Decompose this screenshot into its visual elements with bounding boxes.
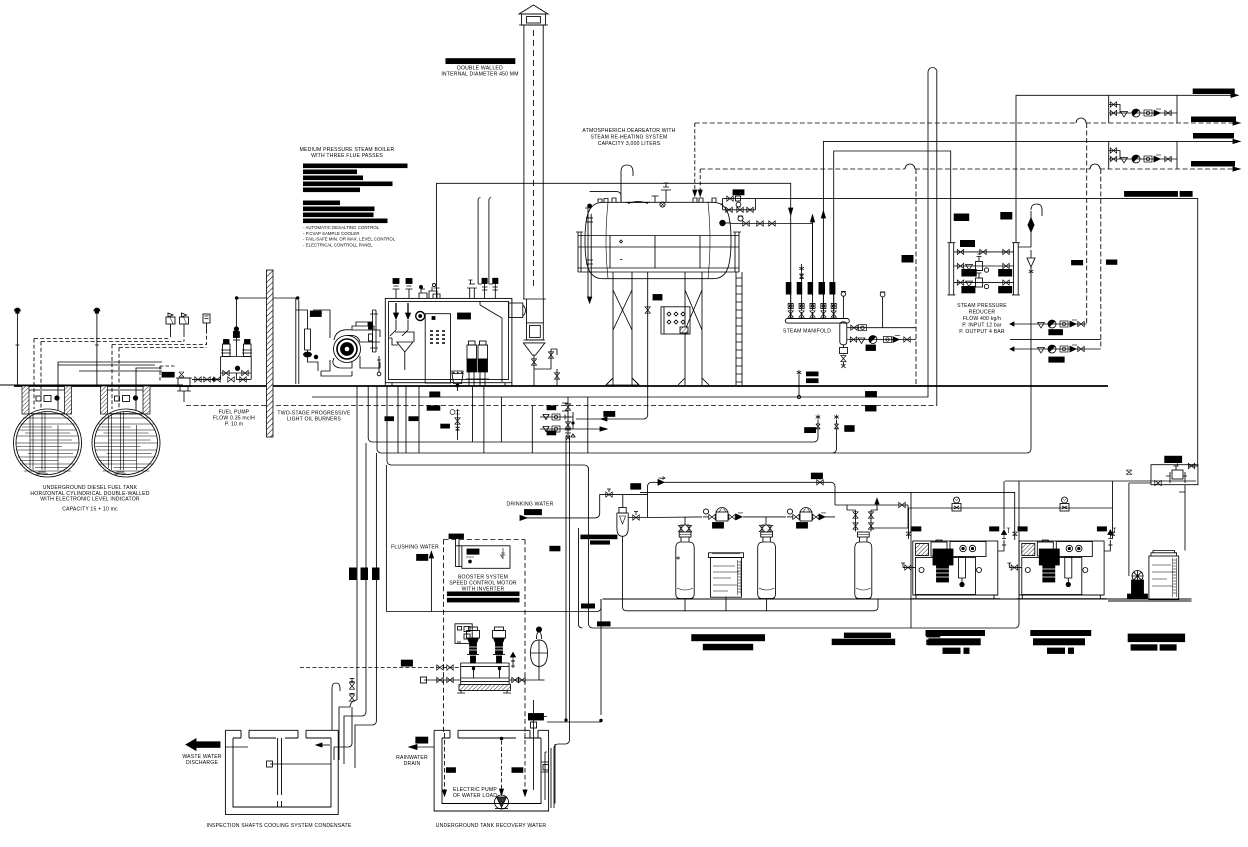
- softener2 head risers: [759, 517, 772, 532]
- boiler info text: [300, 147, 395, 159]
- label bars boiler info block1: [303, 164, 408, 193]
- fuel tank T2 shell: [92, 409, 160, 477]
- wire softener3 cross: [847, 505, 908, 528]
- level transmitter LT2: [180, 313, 189, 333]
- label bar drinking corner: [525, 510, 542, 515]
- node fuel supply: [235, 297, 238, 300]
- skid2 left valve: [1007, 563, 1022, 570]
- label bars skid1: [911, 526, 999, 531]
- valve side riser 2: [554, 373, 559, 379]
- arrow nozzle A: [693, 190, 697, 196]
- svg-text:DRAIN: DRAIN: [404, 761, 421, 767]
- deaerator ladder: [736, 272, 742, 385]
- recovery tank side opening: [541, 762, 549, 772]
- label bar softener2: [797, 523, 808, 529]
- feed pump FP2: [477, 341, 489, 386]
- tank T1 access shaft: [20, 385, 74, 414]
- condensate drain station: [562, 397, 571, 440]
- safety valve reducer: [1018, 204, 1042, 274]
- wire deaerator drain riser x647: [576, 272, 648, 419]
- rainwater arrow: [409, 737, 434, 749]
- label bars reducer: [954, 212, 1013, 293]
- check branch2: [884, 337, 892, 343]
- deaerator D1 vessel: [585, 202, 731, 279]
- wire dashed nozzle riser B: [699, 169, 701, 196]
- wire burner fuel loop: [296, 310, 330, 371]
- gauge burner1: [314, 355, 318, 359]
- softener2 control cluster: [787, 508, 826, 522]
- wire skid feed y492: [640, 492, 1015, 540]
- node fuel supply right: [296, 297, 299, 300]
- softener1 control cluster: [703, 508, 743, 522]
- arrow drinking water entry: [520, 515, 527, 520]
- booster control panel: [455, 624, 472, 644]
- tank T2 access shaft: [99, 385, 153, 414]
- main steam valve nozzle: [433, 288, 440, 298]
- deaerator leg left: [606, 272, 639, 386]
- wire cabinet riser: [1179, 485, 1185, 551]
- waste water text: [182, 754, 221, 766]
- hops y169: [905, 164, 1100, 169]
- arrow y141 end: [1233, 139, 1240, 143]
- wire dashed suction from waste y668: [300, 667, 430, 669]
- vent cap T1: [14, 308, 20, 313]
- booster pump BP2: [493, 627, 506, 663]
- valve deaerator outlet 3: [769, 221, 775, 226]
- wire condensate return y397: [312, 72, 928, 397]
- deaerator recirc loop: [720, 196, 755, 212]
- svg-text:FLOW 400 kg/h: FLOW 400 kg/h: [963, 316, 1001, 322]
- arrow nozzle B: [698, 190, 702, 196]
- waste discharge arrow: [186, 739, 220, 751]
- label bars boiler info block2: [303, 201, 388, 224]
- waste water tank: [225, 730, 338, 814]
- skid2 right relief: [1104, 530, 1113, 551]
- valve deaerator outlet 1: [743, 221, 749, 226]
- boiler bullet list text: [303, 225, 396, 247]
- hop y123: [1076, 118, 1086, 123]
- deaerator feed downpipe: [585, 204, 593, 303]
- label bars water station: [549, 535, 617, 552]
- fuel riser valve cluster: [233, 327, 240, 340]
- svg-text:- P.CVAP SAMPLE COOLER: - P.CVAP SAMPLE COOLER: [303, 231, 360, 236]
- boiler gauge big: [416, 312, 425, 321]
- wire boiler drains to y453: [398, 386, 588, 453]
- softener1 head risers: [678, 517, 691, 532]
- svg-text:DRINKING WATER: DRINKING WATER: [507, 502, 554, 508]
- reducer row2: [954, 254, 1014, 272]
- valve branch2 a: [850, 337, 856, 342]
- steam trap manifold: [840, 345, 848, 368]
- wire dashed box fuel trap: [160, 366, 176, 382]
- svg-text:- AUTOMATIC DESALTING CONTROL: - AUTOMATIC DESALTING CONTROL: [303, 225, 380, 230]
- check valve drop x1128: [1126, 470, 1132, 576]
- manifold separator pot: [840, 292, 847, 345]
- deaerator platform rails: [576, 232, 741, 272]
- svg-text:STEAM RE-HEATING SYSTEM: STEAM RE-HEATING SYSTEM: [591, 135, 668, 141]
- recovery tank: [434, 730, 548, 811]
- wire skid header y508: [909, 481, 1113, 539]
- star valve riser x838: [833, 414, 839, 453]
- star valve riser x818: [816, 414, 821, 437]
- wire star stub: [798, 375, 800, 397]
- dosing pump right: [1128, 571, 1148, 600]
- boiler internal valves left: [390, 303, 411, 336]
- drain valve pair x457: [450, 409, 460, 440]
- softener3 head risers: [847, 499, 879, 532]
- label bars right meter: [1128, 634, 1185, 651]
- wire condensate header y442: [357, 386, 818, 682]
- wire recovery feed drop: [534, 599, 602, 790]
- pressure reducer left header: [948, 243, 956, 295]
- booster outlet: [509, 653, 539, 683]
- small box under bar: [531, 722, 537, 728]
- pump condensate P3: [869, 336, 877, 344]
- wire filter drain x578: [579, 528, 583, 628]
- wire filter feed drop: [622, 495, 624, 508]
- heat exchanger line B y349: [1010, 345, 1101, 353]
- label bar row B: [1049, 357, 1064, 362]
- svg-text:P. 10 m: P. 10 m: [225, 422, 243, 428]
- reducer row1: [954, 249, 1014, 254]
- boiler B1 body: [385, 298, 512, 386]
- electric pump text: [453, 787, 497, 799]
- M valve skid2: [1060, 497, 1069, 511]
- vertical label bars triple: [349, 568, 380, 581]
- svg-text:P. INPUT 12 bar: P. INPUT 12 bar: [962, 323, 1002, 329]
- flushing water arrow: [429, 552, 433, 612]
- wire drinking water y518: [527, 495, 648, 518]
- label bars drain area: [581, 604, 611, 627]
- tanks caption text: [30, 485, 149, 513]
- boiler control panel: [425, 314, 450, 383]
- label bar mini reducer: [1165, 456, 1182, 462]
- skid1 right relief: [998, 481, 1007, 551]
- skid1 left valve: [901, 563, 916, 570]
- valve softener3 feed: [899, 502, 905, 507]
- trap station B y429: [540, 417, 607, 437]
- svg-text:P. OUTPUT 4 BAR: P. OUTPUT 4 BAR: [959, 329, 1005, 335]
- svg-text:STEAM PRESSURE: STEAM PRESSURE: [957, 303, 1007, 309]
- reducer row3: [954, 271, 1014, 289]
- mini reducer box right: [1129, 463, 1198, 485]
- electric pump recovery: [495, 737, 509, 809]
- safety vent risers: [478, 198, 491, 285]
- deaerator leg right: [678, 272, 709, 385]
- fuel filter F1: [304, 326, 312, 357]
- label bar flushing: [417, 554, 428, 560]
- level switch LS: [203, 314, 210, 333]
- svg-text:ATMOSPHERICH DEAREATOR WITH: ATMOSPHERICH DEAREATOR WITH: [582, 128, 675, 134]
- valve branch2 b: [904, 337, 910, 342]
- svg-text:CAPACITY 15 + 10 mc: CAPACITY 15 + 10 mc: [62, 507, 118, 513]
- wire burner supply drop: [296, 298, 299, 384]
- label bar burner line: [310, 311, 321, 317]
- wire side riser 2: [551, 349, 557, 386]
- wire separator branch1: [847, 327, 916, 329]
- cone branch2: [893, 336, 900, 343]
- svg-text:INTERNAL DIAMETER 450 MM: INTERNAL DIAMETER 450 MM: [441, 72, 518, 78]
- wire dashed return y405: [186, 405, 937, 407]
- wire bypass y482: [648, 482, 836, 517]
- wire floor2 bottles y599: [603, 598, 1192, 600]
- valve drinking 2: [633, 512, 639, 521]
- booster discharge header: [461, 678, 509, 681]
- top module 1 loop: [1109, 95, 1177, 123]
- bottle softener3: [855, 532, 872, 599]
- arrows dashed box feet: [443, 790, 528, 796]
- burners text: [277, 411, 351, 423]
- wire vessel drop to recovery: [539, 679, 545, 681]
- wire boiler steam to manifold y183: [437, 183, 791, 318]
- bottle softener2: [758, 532, 776, 599]
- fuel pump text: [213, 410, 255, 428]
- wire filter outlet: [628, 517, 647, 519]
- economizer box: [527, 323, 544, 340]
- wire burner controls: [321, 360, 352, 376]
- fuel pump P1: [221, 340, 231, 357]
- svg-text:- FAIL-SAFE MIN. OR MAX. LEVEL: - FAIL-SAFE MIN. OR MAX. LEVEL CONTROL: [303, 237, 396, 242]
- cabinet softener right: [1149, 551, 1179, 600]
- wire floor right y601: [1108, 600, 1192, 602]
- label bar bypass right: [811, 473, 822, 479]
- wire recovery pair x563: [554, 436, 570, 808]
- arrow y169 end: [1233, 167, 1240, 171]
- wire bottle drain header y611: [623, 540, 879, 611]
- valve skid2b feed: [1110, 532, 1115, 536]
- skid2 relief star: [1113, 528, 1117, 533]
- wire dashed nozzle riser A: [694, 123, 696, 196]
- valve fuel suction 3: [214, 377, 220, 382]
- label bars top right: [1124, 89, 1236, 197]
- valve deaerator outlet 2: [757, 221, 763, 226]
- svg-text:OF WATER LOAD: OF WATER LOAD: [453, 793, 497, 799]
- wire y339 parallel: [1010, 339, 1101, 341]
- wire dashed booster box in tank: [445, 733, 526, 795]
- node star stub: [797, 395, 800, 398]
- label bars skids bottom: [926, 630, 1092, 654]
- ground floor line main: [14, 385, 1108, 387]
- safety valve squares: [482, 278, 498, 298]
- safety valve boiler 2: [406, 279, 413, 299]
- deaerator vent crook: [621, 165, 633, 202]
- fuel trap vessel: [176, 372, 192, 402]
- label bar x818 riser: [805, 428, 816, 433]
- heat exchanger line A y324: [1010, 320, 1087, 328]
- wire bottle drains: [685, 597, 767, 611]
- svg-text:WITH THREE FLUE PASSES: WITH THREE FLUE PASSES: [311, 153, 383, 159]
- label bars skid2: [1018, 526, 1107, 531]
- chimney stack: [519, 5, 548, 299]
- wire fuel suction lines from tanks: [58, 362, 162, 410]
- booster text: [449, 575, 517, 593]
- boiler rear door slant: [480, 301, 502, 382]
- svg-text:DISCHARGE: DISCHARGE: [186, 760, 218, 766]
- cyclone cone: [523, 340, 545, 386]
- label bar recovery feed: [528, 714, 543, 721]
- valve cyclone drain: [531, 359, 536, 365]
- wire drain header y465: [387, 386, 1019, 628]
- label bars softener station text: [691, 631, 940, 650]
- label bars mid right: [902, 255, 1118, 265]
- wire deaerator feed y191: [590, 192, 621, 202]
- deaerator level instrument: [720, 220, 731, 226]
- wire recovery drain pipes right: [545, 744, 555, 808]
- rainwater text: [396, 755, 428, 767]
- separation wall hatched: [267, 270, 274, 437]
- label bar row A: [1049, 330, 1063, 335]
- wire deaerator outlet y223: [731, 216, 813, 296]
- wire top right dashed y123: [695, 122, 1237, 124]
- steam manifold header: [785, 312, 849, 323]
- label bar deaerator: [733, 190, 744, 195]
- valve fuel suction 2: [204, 377, 210, 382]
- wire fuel pump suction y379: [192, 378, 221, 380]
- M valve skid1: [952, 497, 961, 511]
- valve bypass right: [817, 477, 823, 485]
- deaerator top fittings: [598, 183, 716, 207]
- valve on drain riser: [645, 307, 650, 313]
- svg-text:REDUCER: REDUCER: [969, 310, 996, 316]
- check valve bypass: [658, 477, 665, 486]
- label bar drain riser: [653, 295, 662, 301]
- label bars in recovery tank: [446, 767, 523, 773]
- svg-text:LIGHT OIL BURNERS: LIGHT OIL BURNERS: [287, 417, 341, 423]
- wire drop x1100 to pump row B: [1100, 169, 1102, 349]
- svg-text:STEAM MANIFOLD: STEAM MANIFOLD: [783, 329, 831, 335]
- gauge deaerator outlet: [738, 216, 743, 221]
- check branch1: [859, 325, 867, 331]
- flue duct: [523, 299, 546, 323]
- arrow y95 end: [1231, 93, 1238, 97]
- feed pump FP1: [466, 341, 478, 386]
- booster pump BP1: [467, 627, 480, 663]
- svg-text:INSPECTION SHAFTS COOLING SYST: INSPECTION SHAFTS COOLING SYSTEM CONDENS…: [207, 823, 352, 829]
- control cabinet deaerator: [661, 307, 690, 334]
- label bar bypass: [631, 484, 641, 490]
- boiler internal funnel desalting: [389, 332, 415, 370]
- valve drinking 1: [606, 489, 612, 497]
- valve waste inlet 2: [349, 694, 354, 702]
- label bar fuel trap: [162, 372, 174, 377]
- water filter F2: [617, 508, 628, 543]
- brine tank: [709, 553, 744, 597]
- star bottle1: [676, 556, 680, 560]
- gauge riser x882: [880, 292, 885, 328]
- valve side riser 1: [548, 352, 553, 358]
- strainer branch2: [858, 338, 865, 344]
- valve skid2 feed: [1012, 532, 1017, 536]
- wire manifold riser5 to y151 reducer: [834, 151, 951, 318]
- label bar x838 riser: [845, 426, 855, 432]
- pressure reducer right header: [1012, 243, 1020, 295]
- valve waste inlet 1: [349, 679, 354, 690]
- booster dashed enclosure: [444, 540, 526, 734]
- fuel pump loop manifold: [221, 357, 252, 383]
- wire filter to softeners: [648, 516, 836, 519]
- label bars manifold risers: [786, 282, 836, 295]
- pressure reducer text: [957, 303, 1007, 335]
- valve branch1: [851, 325, 857, 330]
- label bar branch2: [866, 345, 876, 351]
- wire drinking line y611: [386, 599, 601, 612]
- booster base frame: [457, 685, 511, 694]
- waste tank internals: [225, 743, 331, 767]
- boiler front fittings: [369, 310, 382, 376]
- label bar suction: [401, 660, 412, 666]
- arrow drain left: [601, 417, 607, 421]
- dosing skid 2: [1017, 540, 1107, 599]
- expansion vessel: [531, 627, 548, 680]
- svg-text:WITH INVERTER: WITH INVERTER: [462, 587, 505, 593]
- label bar drain station: [604, 411, 615, 416]
- node recovery feed: [600, 719, 603, 722]
- label bar on boiler: [458, 313, 471, 319]
- wire skid overline y481: [1005, 480, 1196, 482]
- top module 2 loop: [1109, 141, 1177, 169]
- wire dashed drop x1086 to pump row A: [1086, 123, 1088, 324]
- wire blowdown header y453: [377, 267, 1031, 453]
- label bar blowdown: [430, 392, 440, 397]
- chimney label bar: [446, 59, 515, 64]
- node fuel suction: [212, 378, 214, 380]
- vent pipe tank T2: [95, 313, 99, 385]
- wire top right solid y95: [1016, 95, 1238, 243]
- vent cap T2: [94, 308, 100, 313]
- dosing skid 1: [911, 540, 1001, 599]
- blowdown vessel: [452, 371, 463, 391]
- arrow riser4 up: [821, 211, 825, 218]
- wire fuel supply riser to wall: [236, 298, 297, 357]
- wire dashed boundary x916: [915, 169, 917, 386]
- label bar y405: [866, 406, 877, 412]
- valve skid1 feed: [906, 532, 911, 536]
- svg-text:WITH ELECTRONIC LEVEL INDICATO: WITH ELECTRONIC LEVEL INDICATOR: [40, 497, 140, 503]
- wire softener3 feed y505: [835, 504, 908, 506]
- bottle softener1: [676, 532, 694, 599]
- safety valve boiler 1: [393, 279, 400, 299]
- svg-text:UNDERGROUND TANK RECOVERY WATE: UNDERGROUND TANK RECOVERY WATER: [436, 823, 547, 829]
- valve manifold riser2 top: [800, 274, 804, 279]
- label bars star pair: [806, 372, 819, 384]
- boiler top gauges cluster: [419, 283, 437, 298]
- svg-text:- ELECTRICAL CONTROLL PANEL: - ELECTRICAL CONTROLL PANEL: [303, 242, 373, 247]
- vent crook waste tank: [332, 683, 340, 730]
- wire dashed y169: [700, 168, 1237, 170]
- wire dashed instrument run 1: [34, 333, 184, 409]
- fuel tank T1 shell: [14, 409, 82, 477]
- booster inlet valves: [421, 665, 461, 683]
- booster break tank: [449, 534, 510, 568]
- wire waste inlet elbows: [334, 443, 376, 768]
- burner fan housing: [333, 322, 380, 368]
- label bars booster title: [447, 592, 520, 603]
- star floor mark: [797, 370, 802, 375]
- arrow riser3 up: [810, 215, 814, 222]
- svg-text:CAPACITY 3,000 LITERS: CAPACITY 3,000 LITERS: [598, 141, 661, 147]
- vent pipe tank T1: [16, 313, 20, 385]
- wire manifold risers up: [791, 216, 834, 296]
- label bar on tank: [467, 549, 479, 554]
- wire dashed instrument run 2: [112, 333, 207, 409]
- manifold riser valves: [788, 296, 836, 317]
- wire riser x386 to drinking line: [385, 465, 387, 612]
- chimney text: [441, 66, 518, 78]
- trap station A y417: [540, 412, 573, 420]
- fuel pump P2: [242, 340, 252, 357]
- skid1 relief star: [1007, 528, 1011, 533]
- wire right box top y198: [755, 198, 1197, 466]
